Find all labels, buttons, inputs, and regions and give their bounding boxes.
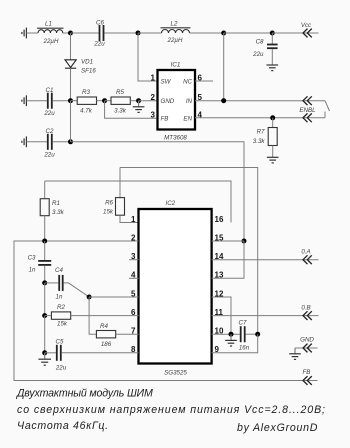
- capacitor C1: [47, 93, 53, 109]
- wire: C4 diagonal to node M on pin5 row: [64, 283, 90, 297]
- wire: IC1 pin4 EN to ENBL terminal: [195, 117, 325, 119]
- wire: IC1 pin6 NC stub: [195, 80, 213, 82]
- svg-text:3.3k: 3.3k: [52, 209, 65, 216]
- wire: node P to C5: [45, 352, 57, 354]
- wire: node F down and right to IC1 pin3 (FB): [105, 101, 158, 119]
- wire: IC2 pin10 to C7: [212, 333, 240, 335]
- ground (node P): [38, 353, 51, 365]
- terminal 0.B (chevrons): [303, 311, 312, 320]
- svg-text:L2: L2: [171, 21, 178, 28]
- svg-text:C7: C7: [239, 320, 247, 327]
- wire: node A to C6: [71, 32, 100, 34]
- wire: IC2 pin14 to terminal 0.A: [212, 259, 319, 261]
- terminal ENBL (lower chevrons on EN row): [303, 113, 312, 122]
- svg-text:186: 186: [101, 341, 112, 348]
- svg-text:R3: R3: [82, 89, 90, 96]
- svg-text:15k: 15k: [103, 209, 114, 216]
- wire: terminal to C2: [26, 141, 47, 143]
- svg-text:FB: FB: [303, 369, 311, 376]
- wire: node A down to diode VD1: [70, 33, 72, 60]
- wire: VREF rail (IC2 pin16 to R1): [45, 181, 231, 223]
- resistor R7: [268, 118, 277, 158]
- wire: GND terminal stub: [295, 347, 318, 349]
- svg-text:EN: EN: [183, 116, 192, 123]
- svg-text:IC2: IC2: [165, 200, 175, 207]
- capacitor C6: [99, 25, 105, 41]
- svg-text:15k: 15k: [57, 321, 68, 328]
- wire: IC2 pin15 to node Q: [212, 240, 244, 242]
- svg-text:со сверхнизким напряжением пит: со сверхнизким напряжением питания Vcc=2…: [17, 404, 326, 416]
- wire: C6 to node B: [104, 32, 138, 34]
- svg-text:4.7k: 4.7k: [80, 108, 93, 115]
- terminal Vcc (chevrons): [303, 29, 312, 38]
- svg-text:22u: 22u: [252, 51, 264, 58]
- svg-text:C4: C4: [55, 267, 63, 274]
- node N (R2 row junction): [42, 313, 47, 318]
- svg-text:22u: 22u: [43, 152, 55, 159]
- svg-text:16n: 16n: [239, 345, 250, 352]
- wire: node K down to C3: [44, 241, 46, 260]
- svg-text:SF16: SF16: [81, 68, 96, 75]
- wire: R5 to node G: [130, 100, 138, 102]
- capacitor C5: [56, 345, 62, 361]
- op-amp/IC U1: IC1 MT3608 body: [158, 70, 196, 130]
- svg-text:R4: R4: [100, 323, 108, 330]
- wire: node D down to C8: [271, 33, 273, 44]
- svg-text:by AlexGrounD: by AlexGrounD: [237, 422, 318, 434]
- node F (R3/R5/FB junction): [102, 98, 107, 103]
- wire: node N down to node P: [44, 316, 46, 353]
- svg-text:FB: FB: [161, 116, 169, 123]
- svg-text:C8: C8: [256, 38, 264, 45]
- wire: IC2 pin9 up to node S: [212, 334, 258, 353]
- capacitor C8: [267, 44, 278, 50]
- inductor L2: [161, 28, 191, 33]
- ground (GND terminal): [289, 348, 301, 359]
- svg-text:0.A: 0.A: [301, 249, 310, 256]
- node G (R5/GND pin junction): [136, 98, 141, 103]
- wire: node J right and down to IC2 pin15: [71, 142, 245, 241]
- wire: node B down to IC1 pin1 (SW): [138, 33, 158, 81]
- wire: C1 to node E: [53, 100, 71, 102]
- terminal GND (chevrons): [303, 344, 312, 353]
- wire: C3 to node L: [44, 266, 46, 283]
- svg-text:1: 1: [131, 215, 136, 224]
- wire: node M to IC2 pin5: [89, 296, 138, 298]
- resistor R4: [96, 331, 115, 338]
- wire: IC2 pin11 to terminal 0.B: [212, 315, 319, 317]
- wire: R2 to IC2 pin6: [71, 315, 139, 317]
- wire: VD1 to node E: [70, 68, 72, 101]
- wire: node G to IC1 pin2: [139, 100, 158, 102]
- svg-text:GND: GND: [161, 98, 175, 105]
- terminal 0.A (chevrons): [303, 255, 312, 264]
- wire: C5 to IC2 pin8: [62, 352, 139, 354]
- svg-text:C6: C6: [96, 20, 104, 27]
- wire: IC2 pin12 down to node R: [212, 297, 231, 334]
- node R (pin10 / pin12 / ground junction): [229, 332, 234, 337]
- wire: C7 to node S: [246, 333, 258, 335]
- wire: VD1 column node E to node J: [70, 101, 72, 142]
- ground (node R): [225, 334, 237, 346]
- wire: ENBL bracket vertical: [324, 112, 326, 118]
- ground (node G): [133, 101, 145, 113]
- node K (pin2 row / R1-C3 junction): [42, 239, 47, 244]
- svg-text:R7: R7: [257, 129, 265, 136]
- svg-text:16: 16: [215, 215, 224, 224]
- capacitor C3: [38, 260, 51, 266]
- ground (R7): [267, 157, 279, 163]
- svg-text:R2: R2: [57, 304, 65, 311]
- wire: L1 to node A: [63, 32, 71, 34]
- node P (pin8 row / ground junction): [42, 350, 47, 355]
- terminal ENBL (upper chevrons on IN row): [303, 96, 312, 105]
- wire: FB net rail (pin2 row, far-left column, bottom run to FB terminal): [14, 241, 318, 381]
- wire: IC2 pin4 NC stub: [129, 277, 139, 279]
- wire: C2 to node J: [53, 141, 71, 143]
- ground (rotated) at L1 input: [22, 28, 27, 39]
- ground (rotated) at C2 input: [22, 136, 27, 147]
- node Q (pin15 / Vcc rail junction): [242, 239, 247, 244]
- svg-text:3: 3: [151, 111, 156, 120]
- svg-text:VD1: VD1: [81, 59, 93, 66]
- svg-text:Vcc: Vcc: [301, 22, 312, 29]
- svg-text:ENBL: ENBL: [299, 107, 316, 114]
- ground (rotated) at C1 input: [22, 95, 27, 106]
- svg-text:L1: L1: [45, 21, 52, 28]
- wire: IC2 pin3 NC stub: [129, 259, 139, 261]
- wire: node C to node D: [224, 32, 273, 34]
- svg-text:C2: C2: [46, 128, 54, 135]
- wire: ENBL bracket diagonal: [325, 101, 330, 111]
- wire: IC2 pin13 up to node Q: [212, 241, 244, 278]
- svg-text:C3: C3: [28, 255, 36, 262]
- svg-text:Двухтактный модуль ШИМ: Двухтактный модуль ШИМ: [16, 388, 153, 400]
- svg-text:IN: IN: [186, 98, 193, 105]
- capacitor C4: [58, 275, 63, 291]
- svg-text:R6: R6: [105, 200, 113, 207]
- inductor L1: [37, 28, 64, 33]
- resistor R5: [111, 97, 130, 104]
- svg-text:R5: R5: [116, 89, 124, 96]
- svg-text:2: 2: [151, 93, 156, 102]
- svg-text:MT3608: MT3608: [164, 135, 187, 142]
- svg-text:22u: 22u: [43, 110, 55, 117]
- svg-text:1: 1: [151, 73, 156, 82]
- svg-text:GND: GND: [300, 337, 314, 344]
- svg-text:1n: 1n: [29, 267, 36, 274]
- wire: terminal to L1: [26, 32, 38, 34]
- svg-text:3.3k: 3.3k: [114, 108, 127, 115]
- node S (C7 / R6-rail / pin9 junction): [255, 332, 260, 337]
- resistor R6: [116, 168, 139, 223]
- svg-text:NC: NC: [183, 79, 192, 86]
- wire: node D to Vcc terminal: [272, 32, 318, 34]
- svg-text:R1: R1: [52, 200, 60, 207]
- svg-text:22u: 22u: [55, 365, 67, 372]
- wire: L2 to node C: [190, 32, 224, 34]
- wire: node M down to R4: [89, 297, 96, 334]
- svg-text:3.3k: 3.3k: [253, 138, 266, 145]
- node C (L2/IN junction): [221, 31, 226, 36]
- node B (C6/L2/SW junction): [136, 31, 141, 36]
- capacitor C7: [240, 326, 246, 342]
- wire: node L to C4: [45, 282, 59, 284]
- wire: node L down to node N: [44, 283, 46, 316]
- svg-text:22µH: 22µH: [167, 37, 183, 44]
- wire: terminal to C1: [26, 100, 47, 102]
- resistor R2: [51, 312, 70, 319]
- svg-text:SG3525: SG3525: [164, 370, 187, 377]
- IC U2: IC2 SG3525 body: [139, 209, 212, 364]
- node D (C8/Vcc junction): [270, 31, 275, 36]
- wire: node C down to IN row: [223, 33, 225, 101]
- svg-text:22u: 22u: [93, 41, 105, 48]
- svg-text:0.B: 0.B: [301, 305, 310, 312]
- svg-text:SW: SW: [161, 79, 172, 86]
- wire: node F to R5: [105, 100, 111, 102]
- wire: C8 to ground: [271, 49, 273, 65]
- wire: node E to R3: [71, 100, 78, 102]
- terminal FB (chevrons): [303, 376, 312, 385]
- resistor R1: [40, 181, 49, 241]
- node J (C2 rail / VD1 column junction): [68, 139, 73, 144]
- node L (C4 row junction): [42, 280, 47, 285]
- wire: node N to R2: [45, 315, 52, 317]
- svg-text:C1: C1: [46, 87, 54, 94]
- diode VD1 SF16: [65, 60, 76, 68]
- svg-text:C5: C5: [56, 339, 64, 346]
- capacitor C2: [47, 134, 53, 150]
- svg-text:1n: 1n: [56, 294, 63, 301]
- node H (IN row / L2 column junction): [221, 98, 226, 103]
- svg-text:22µH: 22µH: [43, 38, 59, 45]
- svg-text:IC1: IC1: [171, 62, 181, 69]
- ground (C8): [267, 65, 279, 71]
- wire: node B to L2: [138, 32, 162, 34]
- svg-text:Частота 46кГц.: Частота 46кГц.: [17, 420, 109, 432]
- node A (L1/C6/VD1 junction): [68, 31, 73, 36]
- resistor R3: [77, 97, 96, 104]
- wire: R3 to node F: [97, 100, 105, 102]
- wire: R6 top rail (to pin9/C7 column): [120, 168, 258, 335]
- wire: R4 to IC2 pin7: [116, 333, 139, 335]
- node I (EN row / R7 junction): [270, 115, 275, 120]
- wire: IC1 pin5 IN to ENBL terminal: [195, 100, 325, 102]
- node M (pin5 / R4 junction): [87, 295, 92, 300]
- node E (C1/VD1/R3 junction): [68, 98, 73, 103]
